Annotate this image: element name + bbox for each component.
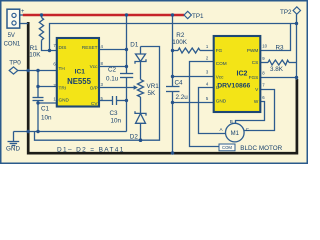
svg-text:B: B [230,119,233,124]
svg-text:R2: R2 [176,32,185,39]
svg-text:100K: 100K [172,39,188,46]
svg-text:CS: CS [252,60,259,65]
svg-text:GND: GND [216,99,227,104]
svg-text:COM: COM [216,61,227,66]
svg-text:CV: CV [91,101,98,106]
svg-text:+: + [21,9,25,15]
svg-text:10K: 10K [29,52,41,59]
svg-text:Vcc: Vcc [90,64,98,69]
svg-text:COM: COM [222,145,232,150]
svg-text:TP1: TP1 [192,13,204,20]
svg-text:0.1u: 0.1u [106,76,119,83]
svg-text:GND: GND [6,146,20,153]
svg-text:TRI: TRI [59,85,67,90]
svg-text:GND: GND [59,97,70,102]
svg-text:IC2: IC2 [237,71,248,78]
svg-text:TH: TH [59,66,65,71]
svg-text:RESET: RESET [82,45,98,50]
svg-text:10n: 10n [111,117,122,124]
svg-text:TP0: TP0 [9,60,21,67]
svg-text:C4: C4 [175,80,184,87]
svg-text:DRV10866: DRV10866 [217,83,250,90]
svg-text:C2: C2 [108,66,117,73]
svg-text:3.8K: 3.8K [270,66,284,73]
svg-text:2.2u: 2.2u [176,94,189,101]
svg-text:IC1: IC1 [75,69,86,76]
svg-text:VR1: VR1 [147,83,160,90]
svg-text:10n: 10n [41,114,52,121]
svg-text:TP2: TP2 [280,9,292,16]
svg-text:D2: D2 [130,134,139,141]
svg-text:PWM: PWM [247,48,259,53]
svg-text:W: W [254,99,259,104]
svg-text:C1: C1 [41,106,50,113]
svg-text:5K: 5K [148,90,157,97]
svg-text:10: 10 [262,44,267,49]
svg-text:CON1: CON1 [4,42,21,48]
svg-text:R3: R3 [276,45,285,52]
svg-text:5V: 5V [8,33,15,39]
svg-text:DIS: DIS [59,45,67,50]
svg-text:NE555: NE555 [67,77,92,86]
svg-text:BLDC MOTOR: BLDC MOTOR [240,145,282,152]
svg-text:FG: FG [216,48,223,53]
svg-text:C3: C3 [110,110,119,117]
svg-text:FGS: FGS [249,75,259,80]
svg-text:O/P: O/P [90,86,98,91]
svg-text:Vcc: Vcc [216,75,224,80]
svg-text:M1: M1 [231,131,240,137]
svg-text:D1: D1 [130,42,139,49]
svg-text:D1– D2 = BAT41: D1– D2 = BAT41 [57,146,125,153]
